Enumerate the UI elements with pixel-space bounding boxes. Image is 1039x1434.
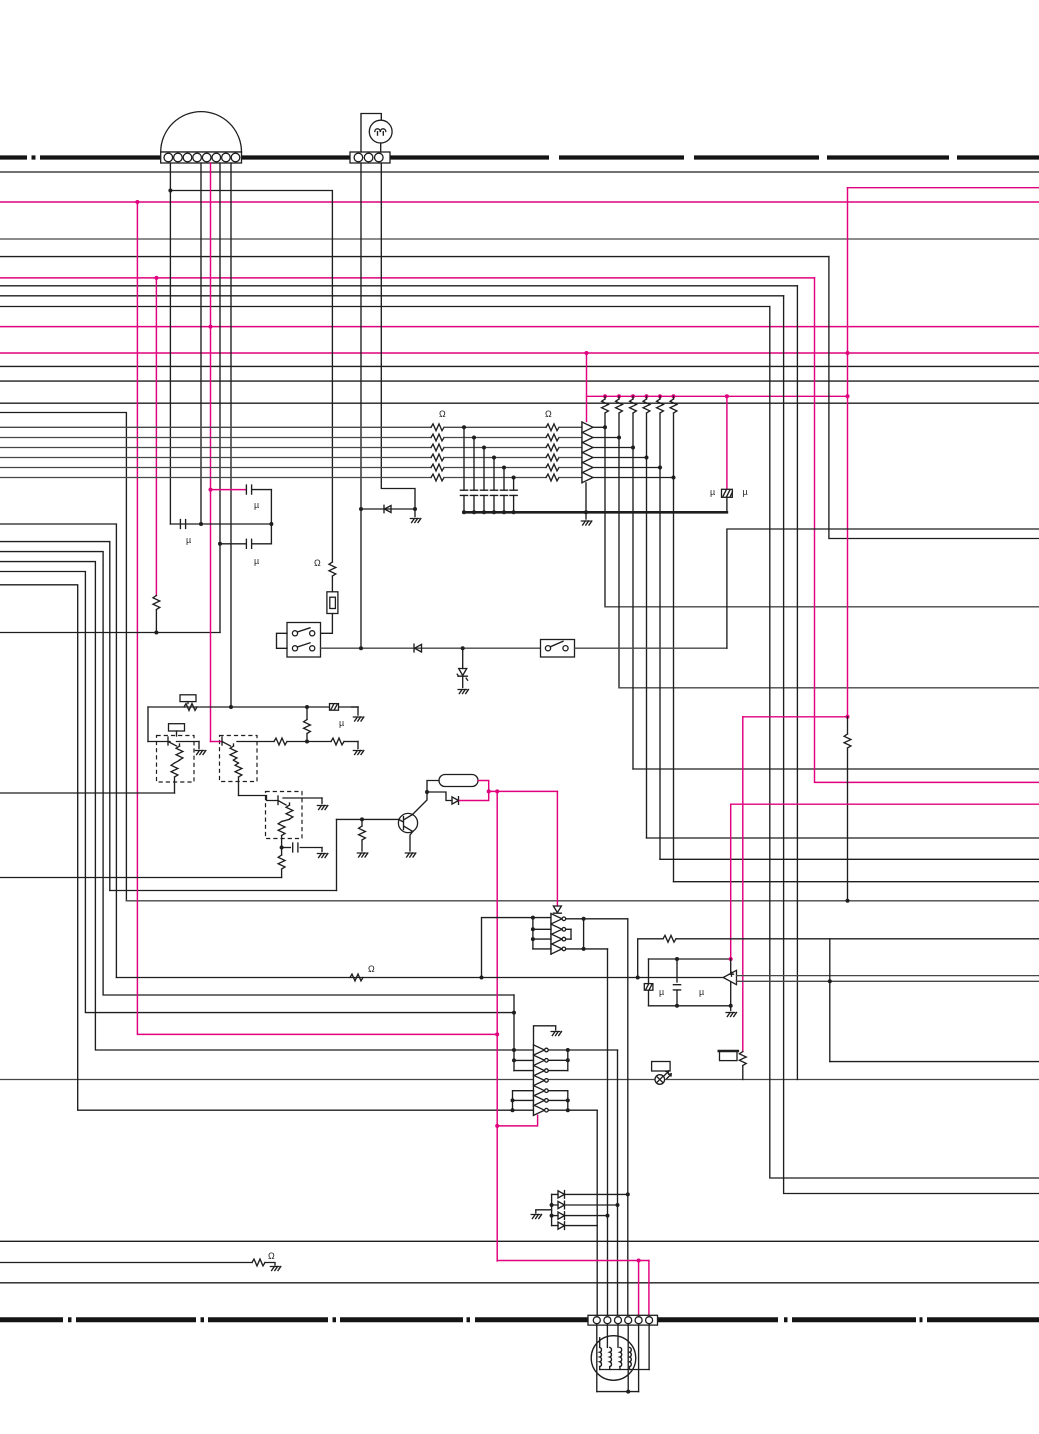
node row1 tap: [462, 425, 466, 429]
wire y1283 full: [0, 1282, 1039, 1284]
capacitor mu-box y707: [330, 704, 339, 711]
resistor R2f: [546, 474, 559, 481]
wire pin4 drop: [627, 1325, 629, 1392]
capacitor Cb4: [493, 458, 495, 491]
U3 out bracket lower: [548, 1090, 568, 1092]
ground gnd-730: [726, 1013, 736, 1017]
node boxbot-677: [675, 1004, 679, 1008]
node railm5: [658, 394, 662, 398]
resistor R-1262: [252, 1259, 265, 1266]
ground gnd-322a: [317, 806, 327, 810]
wire row1 to buffer: [559, 426, 582, 428]
wire x148 drop: [147, 707, 149, 742]
diode bridge nodes: [550, 1203, 554, 1207]
buffers U3a-U3g: [534, 1045, 545, 1055]
node m791b: [495, 789, 499, 793]
node in-829: [828, 979, 832, 983]
QC internals: [277, 796, 279, 805]
wire bottom U: [597, 1391, 639, 1393]
wire y1241 full: [0, 1240, 1039, 1242]
node x231-y707: [229, 705, 233, 709]
node m716 junction: [846, 715, 850, 719]
wire y1079 gray full: [0, 1079, 534, 1081]
relay switch SW1 box: [287, 623, 321, 658]
wire pin1 drop: [596, 1325, 598, 1392]
wire magenta top right corner: [848, 187, 1039, 189]
node rail5: [502, 510, 506, 514]
node out3: [631, 446, 635, 450]
wire magenta x814 bend: [815, 278, 1039, 783]
capacitor C-a y524: [170, 523, 271, 525]
inductor FL1 (pill): [439, 775, 478, 787]
wire row5 mid: [444, 467, 546, 469]
wire magenta x730 from y804: [731, 804, 1039, 959]
resistor R2a: [546, 424, 559, 431]
U2 input bridge: [532, 918, 534, 949]
wire y381: [0, 380, 1039, 382]
wire y939 right: [676, 938, 1039, 940]
wire w3 lower: [110, 890, 337, 892]
node out1: [603, 425, 607, 429]
node railm2: [617, 394, 621, 398]
svg-text:Ω: Ω: [368, 964, 375, 974]
capacitor C-qc: [282, 847, 291, 849]
node y977-637: [636, 976, 640, 980]
resistor R1d: [431, 454, 444, 461]
motor coil rail: [600, 1369, 649, 1371]
node boxbot-730: [729, 1004, 733, 1008]
wire y296 to bend: [0, 295, 784, 297]
node rail4: [492, 510, 496, 514]
wire y1061 right: [830, 1061, 1039, 1063]
CN3 pins: [593, 1317, 600, 1324]
ground gnd-275: [270, 1267, 280, 1271]
wire magenta riser x137: [137, 202, 497, 1034]
wire magenta U3g feed: [497, 1115, 537, 1126]
connector CN1 pins: [164, 153, 173, 162]
wire U1 out row2: [594, 437, 620, 439]
wire D6 out: [565, 1204, 618, 1206]
QA right branch: [177, 741, 200, 743]
svg-text:µ: µ: [659, 987, 664, 997]
wire magenta feed U1: [586, 353, 588, 422]
resistor R-base: [361, 819, 363, 826]
node rail1: [462, 510, 466, 514]
node row6 tap: [512, 476, 516, 480]
resistor on x156: [153, 596, 160, 610]
SW1 contacts: [292, 631, 297, 636]
node y509a: [359, 507, 363, 511]
QA internals: [167, 737, 169, 745]
wire x829 bend: [829, 257, 1039, 539]
wire U1 out row3: [594, 447, 634, 449]
wire magenta y1260: [497, 1260, 649, 1262]
resistor R-742: [739, 1052, 746, 1066]
wire w6: [0, 572, 514, 1013]
wire row1 left: [0, 426, 431, 428]
wire y977 main: [116, 977, 723, 979]
connector CN3: [588, 1315, 658, 1325]
wire fuse to switch: [315, 614, 333, 634]
resistor R2c: [546, 444, 559, 451]
wire diode branch: [427, 792, 452, 801]
capacitor C-c y543: [220, 543, 246, 545]
wire pin magenta x210: [210, 163, 212, 742]
U2 in stubs: [533, 928, 551, 930]
resistor R-939: [663, 935, 676, 942]
buffers U1a-U1f: [582, 422, 593, 433]
wire y286 to bend: [0, 285, 797, 287]
wire magenta drop x727: [726, 396, 728, 489]
node QC chain: [280, 846, 284, 850]
wire row4 left: [0, 457, 431, 459]
resistor Rh2: [331, 738, 344, 745]
wire row6 left: [0, 477, 431, 479]
node bottomU: [626, 1390, 630, 1394]
ground gnd-410: [405, 853, 415, 857]
U3 in bridge upper: [513, 995, 515, 1071]
diode D5: [558, 1191, 565, 1199]
node m1034: [495, 1032, 499, 1036]
wire magenta x742 drop: [742, 717, 744, 1052]
capacitor C-b magenta feed: [211, 489, 247, 491]
resistor Rp4: [646, 396, 648, 399]
wire pin5 drop: [638, 1325, 640, 1392]
wire y741 right seg: [237, 741, 274, 743]
coil stubs: [600, 1367, 630, 1370]
cap mu-box left: [644, 984, 653, 991]
U2 outA nodes: [582, 917, 586, 921]
wire x730 leg: [730, 959, 732, 1006]
capacitor Cmu box: [722, 489, 733, 497]
node m1125: [495, 1124, 499, 1128]
capacitor Cb2: [473, 438, 475, 491]
resistor R1a: [431, 424, 444, 431]
svg-text:Ω: Ω: [268, 1251, 275, 1261]
diode bridge: [551, 1194, 553, 1225]
QB internals: [221, 737, 223, 745]
wire drop x660: [659, 468, 661, 860]
wire pin x220: [219, 163, 221, 633]
transistor Q1: [398, 813, 417, 832]
relay coil K1: [180, 695, 196, 702]
wire pin x361: [360, 163, 362, 648]
wire drop x673: [673, 478, 675, 882]
bottom power bus bar (dashed thick): [0, 1317, 1039, 1322]
wire magenta y326: [0, 326, 1039, 328]
resistor Rh1: [274, 738, 287, 745]
node out4: [645, 456, 649, 460]
node x847-y900: [846, 899, 850, 903]
resistor R1c: [431, 444, 444, 451]
node m1260: [637, 1259, 641, 1263]
node D5-628: [626, 1192, 630, 1196]
wire Q1 emitter: [410, 832, 413, 852]
relay coil K3: [720, 1051, 738, 1061]
wire w5: [0, 562, 534, 1050]
wire lamp to strip: [380, 143, 382, 152]
connector CN1 dome: [161, 112, 242, 152]
wire pill right magenta: [478, 781, 489, 792]
wire y403: [0, 402, 1039, 404]
wire row3 left: [0, 447, 431, 449]
svg-text:µ: µ: [699, 987, 704, 997]
resistor Rk1 inline: [184, 704, 197, 711]
U2 out bracket A: [583, 919, 585, 949]
wire pin x201: [200, 163, 202, 524]
wire SW1 common: [277, 633, 288, 648]
node boxtop-730 magenta: [729, 957, 733, 961]
diode D-c: [452, 797, 459, 805]
opamp box top rail: [649, 958, 731, 960]
wire x336 drop: [336, 819, 338, 890]
wire x829 vert: [829, 939, 831, 1062]
wire row6 to buffer: [559, 477, 582, 479]
wire w3: [0, 542, 110, 891]
wire y877 left: [0, 877, 282, 879]
ground gnd-415: [410, 519, 420, 523]
node railm6: [672, 394, 676, 398]
wire y190 branch: [170, 191, 332, 563]
node row2 tap: [472, 436, 476, 440]
wire magenta into QB: [211, 741, 223, 743]
node base tap: [360, 817, 364, 821]
capacitor C-op: [676, 959, 678, 982]
wire drop x605: [604, 427, 606, 607]
resistor R1f: [431, 474, 444, 481]
wire row5 to buffer: [559, 467, 582, 469]
wire row2 to buffer: [559, 437, 582, 439]
motor coil 1: [600, 1347, 602, 1366]
wire pin2 drop: [606, 1325, 608, 1348]
node coll-792: [425, 790, 429, 794]
wire D8 out: [565, 1225, 598, 1227]
wire right cap loop: [270, 490, 272, 544]
wire pin x381: [381, 163, 415, 509]
wire drop x619: [618, 438, 620, 688]
wire magenta x557 drop: [556, 791, 558, 906]
magenta pull-up rail y396: [587, 395, 848, 397]
wire magenta y278 to bend: [0, 277, 815, 279]
connector CN2 strip: [350, 152, 390, 163]
node boxtop-677: [675, 957, 679, 961]
resistor Rp3: [632, 396, 634, 399]
ground gnd-322b: [317, 854, 327, 858]
wire pill left: [427, 781, 439, 793]
node x307-y707: [305, 705, 309, 709]
node c543: [218, 542, 222, 546]
opamp box bottom rail: [649, 1005, 731, 1007]
node row4 tap: [492, 456, 496, 460]
wire w2: [0, 524, 116, 978]
wire magenta pin6: [648, 1261, 650, 1316]
wire row6 mid: [444, 477, 546, 479]
thermistor box QC: [266, 792, 303, 839]
wire magenta pin5: [638, 1261, 640, 1316]
diode gnd stub: [536, 1210, 552, 1213]
resistor Rp6: [673, 396, 675, 399]
supply rail y512: [464, 511, 727, 514]
svg-text:µ: µ: [339, 718, 344, 728]
node rail2: [472, 510, 476, 514]
U2 out bracket B: [570, 929, 572, 939]
U3 top gnd: [534, 1026, 556, 1045]
wire row5 left: [0, 467, 431, 469]
svg-text:Ω: Ω: [439, 409, 446, 419]
U2 out row1: [567, 918, 628, 920]
node railm4: [645, 394, 649, 398]
resistor R-977 inline: [350, 974, 363, 981]
node out5: [658, 466, 662, 470]
relay coil K2: [169, 724, 185, 731]
wire drop x597: [596, 1110, 598, 1315]
wire w4: [0, 552, 514, 995]
fuse F1: [327, 592, 338, 614]
node m489: [209, 488, 213, 492]
wire y256 to right bend: [0, 256, 829, 258]
wire row2 mid: [444, 437, 546, 439]
wire y707 end gnd: [352, 706, 359, 708]
wire gnd stub x415: [414, 509, 416, 517]
wire pin3 drop: [617, 1325, 619, 1348]
node y741-307: [305, 740, 309, 744]
node D7-607: [606, 1214, 610, 1218]
wire w1: [0, 413, 126, 901]
wire drop x633: [632, 448, 634, 770]
wire y741 end: [344, 741, 358, 743]
wire pin x170: [169, 163, 171, 524]
node U1 rail: [584, 510, 588, 514]
wire drop x646: [646, 458, 648, 839]
node y509b: [413, 507, 417, 511]
ground gnd-358b: [353, 751, 363, 755]
svg-text:Ω: Ω: [545, 409, 552, 419]
wire U1 gnd stem: [585, 483, 587, 519]
wire w1 lower gray: [126, 900, 1039, 902]
node m791a: [487, 789, 491, 793]
buffers U2a-U2d: [551, 914, 562, 924]
wire y741 left seg: [148, 741, 170, 743]
buffer column U3 base: [533, 1045, 535, 1116]
U3 out bracket upper: [548, 1049, 617, 1051]
wire x727 riser: [727, 529, 1039, 648]
wire D7 out: [565, 1215, 608, 1217]
node railm3: [631, 394, 635, 398]
zener D-z: [462, 648, 464, 668]
wire drop x607: [607, 949, 609, 1316]
wire magenta x156 from y278: [155, 278, 157, 596]
wire magenta y791: [489, 790, 558, 792]
wire y707: [148, 706, 358, 708]
wire y366: [0, 365, 1039, 367]
wire pin6 drop: [648, 1325, 650, 1370]
thermistor box QB: [220, 736, 258, 782]
resistor R2b: [546, 434, 559, 441]
opamp box left leg: [648, 959, 650, 1006]
ground gnd-462: [458, 690, 468, 694]
diode D7: [558, 1212, 565, 1220]
svg-text:µ: µ: [743, 487, 748, 497]
motor coil 2: [610, 1347, 612, 1366]
wire w7: [0, 585, 534, 1110]
capacitor Cb6: [513, 478, 515, 491]
U2 in nodes: [531, 916, 535, 920]
QC right branch: [283, 797, 322, 799]
motor coil 3: [620, 1347, 622, 1366]
ground gnd-362: [357, 853, 367, 857]
wire D5 out: [565, 1193, 628, 1195]
node x170-y190: [168, 189, 172, 193]
node sw-b: [461, 646, 465, 650]
wire magenta x497 long: [496, 791, 498, 1261]
wire x797 bend: [796, 286, 798, 1080]
U3 in nodes upper: [512, 1011, 516, 1015]
wire y632 to left edge: [0, 632, 220, 634]
wire zener gnd: [462, 676, 464, 688]
resistor Rm847: [844, 734, 851, 748]
U3 in nodes lower: [511, 1098, 515, 1102]
resistor Rf x332: [329, 562, 336, 576]
svg-text:µ: µ: [186, 535, 191, 545]
wire U1 out row1: [594, 426, 606, 428]
wire base line y819: [337, 818, 399, 820]
node railm1: [603, 394, 607, 398]
resistor R-qc: [281, 848, 283, 856]
diode D6: [558, 1201, 565, 1209]
diode stubs: [552, 1194, 558, 1225]
wire QB to QC: [239, 796, 279, 801]
capacitor Cb3: [483, 448, 485, 491]
wire y509: [361, 508, 415, 510]
buffer column U1 base: [581, 422, 583, 483]
wire Q1 collector: [413, 792, 428, 815]
node row3 tap: [482, 446, 486, 450]
wire U1 out row5: [594, 467, 661, 469]
node c524a: [199, 522, 203, 526]
node x156-y632: [154, 631, 158, 635]
resistor Rv307: [306, 707, 308, 720]
wire R-1262 gnd: [265, 1263, 275, 1266]
lamp LP2: [655, 1075, 665, 1085]
svg-text:µ: µ: [254, 500, 259, 510]
thermistor box QA: [157, 736, 195, 783]
top power bus bar (dashed thick): [0, 155, 1039, 159]
resistor R2d: [546, 454, 559, 461]
node D6-617: [616, 1203, 620, 1207]
wire x727 to rail: [726, 497, 728, 512]
U3 outU nodes: [566, 1048, 570, 1052]
node c524b: [269, 522, 273, 526]
wire x637 riser: [638, 939, 663, 978]
node y977-481: [480, 976, 484, 980]
wire row2 left: [0, 437, 431, 439]
motor M1 circle: [591, 1336, 636, 1381]
wire row4 to buffer: [559, 457, 582, 459]
node out6: [672, 476, 676, 480]
node rail-end x847: [846, 394, 850, 398]
wire y1262: [0, 1262, 252, 1264]
wire U1 out row6: [594, 477, 674, 479]
wire lamp loop: [361, 114, 381, 153]
wire x770 bend: [770, 307, 1039, 1179]
opamp U4 triangle: [723, 970, 736, 984]
svg-text:µ: µ: [710, 487, 715, 497]
diode D-b: [414, 644, 422, 652]
wire magenta y202: [0, 201, 1039, 203]
wire y741 mid: [287, 741, 331, 743]
node m353-847: [846, 351, 850, 355]
resistor R1e: [431, 464, 444, 471]
